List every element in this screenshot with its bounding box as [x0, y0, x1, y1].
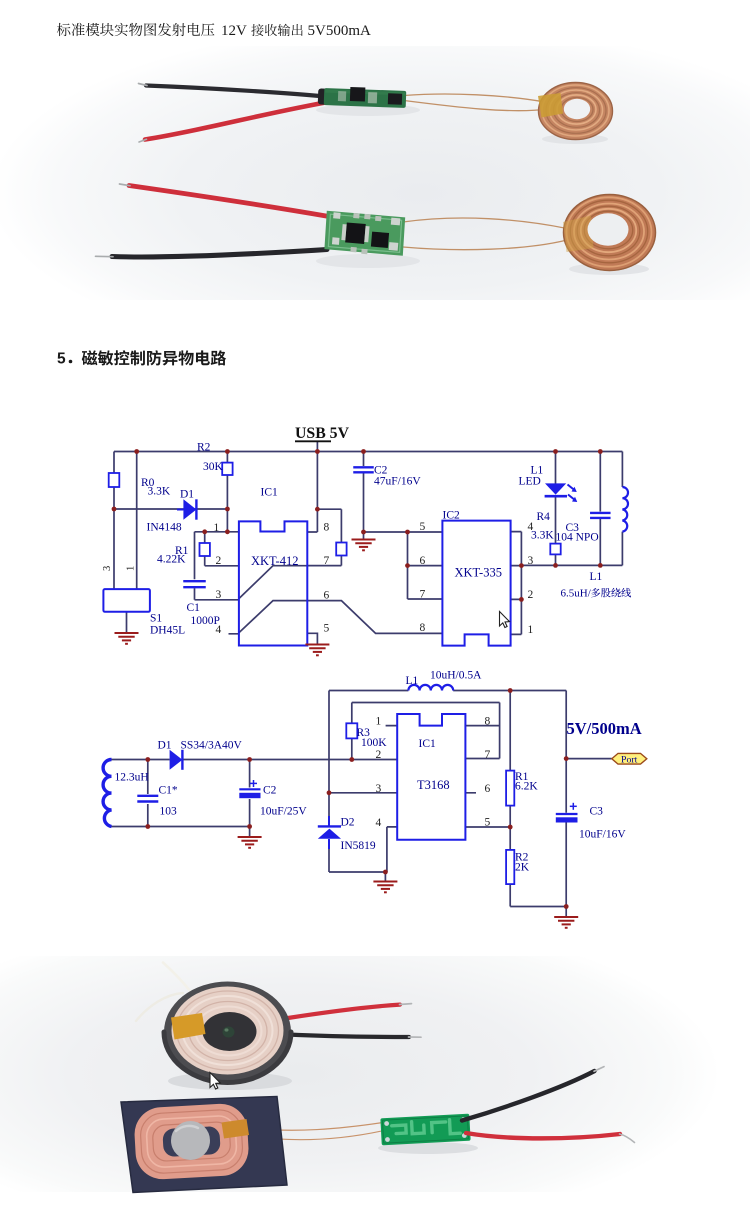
svg-text:12V: 12V	[221, 23, 247, 39]
svg-text:5V500mA: 5V500mA	[308, 23, 372, 39]
svg-text:5: 5	[57, 351, 66, 368]
svg-text:6.5uH/: 6.5uH/	[561, 588, 592, 600]
